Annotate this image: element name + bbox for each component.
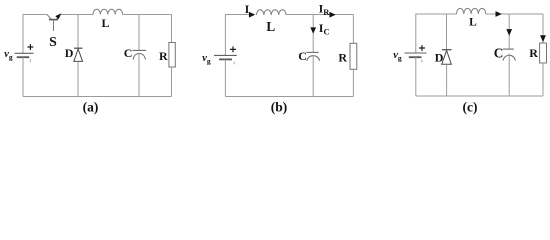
svg-text:C: C <box>124 46 133 60</box>
svg-text:C: C <box>494 45 504 60</box>
wire battery to bottom (a) <box>22 57 24 96</box>
wire L to right corner (c) <box>486 13 543 15</box>
current arrow IC (b) <box>310 27 316 33</box>
capacitor branch wire bottom (a) <box>138 53 140 96</box>
svg-text:(c): (c) <box>463 99 478 114</box>
capacitor C branch wire top (a) <box>138 15 140 51</box>
capacitor C (b) <box>306 52 319 60</box>
current arrow on capacitor branch (c) <box>506 29 512 36</box>
inductor L coil (a) <box>93 9 123 14</box>
wire right vertical bottom (a) <box>171 67 173 97</box>
diode D (c) <box>442 50 452 65</box>
svg-text:(a): (a) <box>83 99 99 114</box>
capacitor branch wire bottom (b) <box>312 56 314 97</box>
battery vg (c) <box>405 45 427 62</box>
bottom wire (c) <box>416 95 543 97</box>
resistor R box (c) <box>540 43 547 63</box>
wire L to right corner (a) <box>123 14 172 16</box>
wire battery to bottom (c) <box>415 57 417 96</box>
svg-text:D: D <box>65 46 74 60</box>
svg-text:S: S <box>49 34 57 49</box>
bottom wire (a) <box>23 96 172 98</box>
current arrow on top wire (c) <box>496 11 502 17</box>
capacitor C (c) <box>503 49 516 61</box>
current arrow on resistor branch (c) <box>540 35 546 42</box>
battery vg (b) <box>214 46 237 64</box>
wire right vertical top (b) <box>352 15 354 44</box>
resistor R box (a) <box>169 43 175 68</box>
svg-text:(b): (b) <box>271 99 288 114</box>
capacitor branch wire bottom (c) <box>508 53 510 96</box>
transistor S (switch) <box>47 13 61 31</box>
capacitor branch wire top (c) <box>508 14 510 49</box>
wire top-left segment (b) <box>225 15 248 56</box>
diode branch wire bottom (a) <box>77 61 79 96</box>
capacitor branch wire top (b) <box>312 15 314 53</box>
current arrow I (b) <box>249 12 255 18</box>
inductor L coil (b) <box>257 10 287 15</box>
diode D (a) <box>74 48 83 61</box>
svg-text:R: R <box>159 49 168 63</box>
wire right vertical bottom (c) <box>542 63 544 96</box>
diode D branch wire top (c) <box>446 14 448 50</box>
wire S to L <box>61 14 93 16</box>
diode branch wire bottom (c) <box>446 64 448 96</box>
wire top-left segment (c) <box>416 14 457 53</box>
wire L to right corner (b) <box>286 14 353 16</box>
wire right vertical top (c) <box>542 14 544 43</box>
svg-text:R: R <box>529 46 538 60</box>
resistor R box (b) <box>350 43 357 69</box>
diode D branch wire top (a) <box>77 15 79 49</box>
svg-text:L: L <box>101 16 109 30</box>
svg-text:C: C <box>298 49 307 63</box>
svg-text:I: I <box>245 2 250 16</box>
svg-text:R: R <box>338 51 347 65</box>
capacitor C (a) <box>133 50 147 59</box>
bottom wire (b) <box>225 96 353 98</box>
svg-text:L: L <box>266 19 275 34</box>
svg-text:L: L <box>469 16 477 28</box>
wire top-left segment (a) <box>23 15 47 54</box>
battery vg (a) <box>15 44 34 62</box>
wire right vertical top (a) <box>171 15 173 43</box>
current arrow IR (b) <box>329 12 335 18</box>
svg-text:D: D <box>435 51 444 65</box>
inductor L coil (c) <box>457 8 486 14</box>
wire right vertical bottom (b) <box>352 69 354 96</box>
wire battery to bottom (b) <box>224 59 226 96</box>
